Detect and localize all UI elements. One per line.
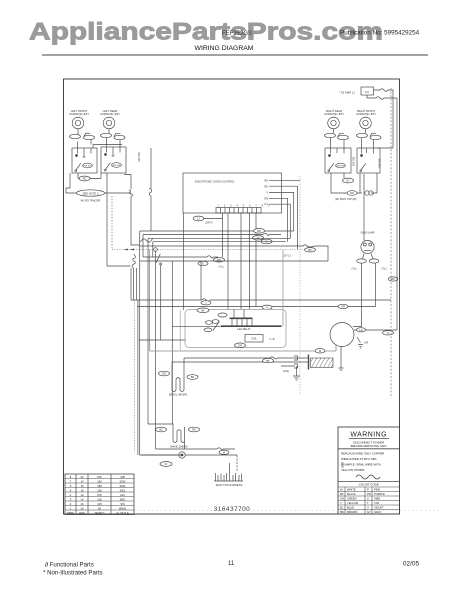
label W on drop	[160, 462, 172, 467]
wire: oven lamp right drop	[375, 263, 377, 307]
svg-text:WIRE: WIRE	[67, 511, 74, 515]
door switch plunger coil	[132, 254, 135, 268]
svg-text:(YL): (YL)	[351, 267, 356, 271]
svg-text:150: 150	[97, 488, 102, 492]
svg-text:GY: GY	[264, 203, 268, 206]
svg-text:YELLOW STRIPE.: YELLOW STRIPE.	[341, 468, 365, 472]
svg-text:BAKE 2850W: BAKE 2850W	[170, 445, 187, 449]
svg-text:RD: RD	[350, 192, 354, 195]
svg-text:7: 7	[70, 479, 72, 483]
svg-text:WARNING: WARNING	[350, 432, 387, 439]
svg-text:3321: 3321	[120, 488, 126, 492]
svg-text:BLUE: BLUE	[347, 506, 354, 510]
svg-text:(GY) 2: (GY) 2	[283, 254, 291, 258]
svg-text:SURFACE UNIT: SURFACE UNIT	[69, 112, 89, 116]
wire: x147 vertical to bake	[148, 238, 173, 427]
bus wire y261 to right with label	[140, 261, 328, 269]
svg-text:180: 180	[97, 484, 102, 488]
surface unit left front label	[69, 109, 89, 116]
relay coil box	[245, 335, 275, 343]
svg-text:L&E RELAY: L&E RELAY	[237, 328, 251, 331]
electronic oven control	[183, 173, 282, 213]
svg-text:3: 3	[70, 497, 72, 501]
svg-text:W: W	[165, 462, 168, 466]
terminal block left rear	[101, 129, 126, 140]
svg-text:BK: BK	[201, 309, 205, 313]
wire: L2 drop from EOC connector	[193, 213, 222, 257]
svg-text:A/B: A/B	[120, 475, 125, 479]
label GY below right switches	[331, 173, 354, 183]
svg-text:90: 90	[98, 506, 101, 510]
EOC connector strip	[216, 206, 272, 214]
ground at terminal block	[283, 366, 300, 380]
svg-text:BROWN: BROWN	[347, 510, 357, 514]
svg-text:BK: BK	[191, 375, 195, 379]
wire: x160.7 down	[160, 265, 162, 340]
svg-text:W: W	[340, 488, 343, 492]
svg-text:SIS: SIS	[120, 502, 125, 506]
svg-text:PR: PR	[367, 492, 371, 496]
wire: RF switch feeds	[362, 138, 374, 148]
warning box	[338, 427, 400, 514]
svg-text:FEF352GS: FEF352GS	[222, 31, 252, 37]
svg-text:PW: PW	[97, 493, 102, 497]
svg-text:GY: GY	[346, 179, 350, 183]
perforation dots	[64, 510, 441, 512]
wire: EOC pin2	[269, 186, 298, 249]
terminal block right front	[357, 129, 382, 140]
svg-text:AppliancePartsPros.com: AppliancePartsPros.com	[29, 19, 383, 46]
relay contact bar 2	[173, 326, 282, 331]
svg-text:AWG: AWG	[79, 511, 85, 515]
bus wire y257 with break RD	[143, 256, 225, 262]
wire: gray drop to relay box	[282, 250, 284, 327]
wire: vertical from LR switch down	[107, 173, 131, 266]
wire: light bottom to gray run	[335, 344, 337, 351]
surface unit right front label	[356, 109, 376, 116]
main top harness connector	[214, 463, 243, 487]
wire: fuse out bottom	[367, 95, 397, 99]
svg-text:6: 6	[70, 484, 72, 488]
wire: x137.9 down	[137, 300, 139, 455]
wire: LR switch feeds	[107, 138, 121, 147]
wire: EOC pin4	[269, 198, 288, 241]
svg-text:SURFACE UNIT: SURFACE UNIT	[356, 112, 376, 116]
bus wire y238.3 with label YL	[148, 238, 290, 244]
wire: x201 drop	[200, 261, 202, 300]
svg-text:WIRING DIAGRAM: WIRING DIAGRAM	[195, 45, 254, 52]
svg-text:8: 8	[70, 475, 72, 479]
svg-text:TEMP°C: TEMP°C	[94, 511, 105, 515]
svg-text:OR: OR	[238, 344, 242, 348]
wire: x142 vertical long	[140, 231, 181, 455]
svg-text:MAIN TOP HARNESS: MAIN TOP HARNESS	[216, 483, 243, 487]
wire: LF switch feeds	[78, 140, 123, 149]
bus wire y241.7	[153, 242, 286, 257]
svg-text:F--B: F--B	[270, 338, 275, 341]
wire break symbol on x131	[124, 175, 140, 246]
svg-text:316 SW: 316 SW	[137, 152, 141, 162]
svg-text:PURPLE: PURPLE	[374, 492, 385, 496]
svg-text:GN: GN	[340, 497, 344, 501]
svg-text:BK: BK	[308, 248, 312, 252]
label OR on relay box bottom	[235, 343, 246, 348]
svg-text:OR: OR	[341, 306, 345, 309]
svg-text:16: 16	[81, 502, 84, 506]
infinite switch left rear	[101, 147, 126, 173]
ground stub below light	[339, 347, 344, 371]
wire gauge table	[65, 474, 134, 515]
wire: broil to terminal block	[172, 357, 281, 363]
oven light assembly	[330, 323, 354, 347]
wire: broil leads	[172, 358, 184, 375]
svg-text:INF SW: INF SW	[337, 166, 346, 168]
svg-text:GREEN: GREEN	[347, 497, 357, 501]
bus wire y231 with label RD	[140, 229, 294, 234]
svg-text:316 SW: 316 SW	[378, 158, 382, 168]
surface unit left rear	[103, 117, 115, 129]
door switch contact	[156, 254, 160, 263]
svg-text:RD: RD	[264, 185, 268, 188]
svg-text:COIL: COIL	[251, 338, 257, 341]
svg-text:RD: RD	[192, 428, 196, 432]
svg-text:PW: PW	[97, 475, 102, 479]
svg-text:1: 1	[70, 506, 72, 510]
svg-text:PINK: PINK	[374, 488, 380, 492]
svg-text:316437700: 316437700	[214, 506, 251, 513]
surface unit right rear label	[324, 109, 344, 116]
bus wire y246 long with break BK	[140, 245, 328, 261]
svg-text:REPLACE WIRE ONLY COPPER: REPLACE WIRE ONLY COPPER	[341, 452, 384, 456]
bake element	[170, 427, 187, 449]
svg-text:2: 2	[70, 502, 72, 506]
diagram frame	[64, 79, 400, 514]
svg-text:FU: FU	[365, 90, 369, 94]
svg-text:Y: Y	[340, 501, 342, 505]
svg-text:14: 14	[81, 479, 84, 483]
svg-text:(YL): (YL)	[218, 265, 223, 269]
svg-text:(GN): (GN)	[283, 369, 289, 373]
svg-text:GY: GY	[367, 510, 371, 514]
harness dotted run y249.5	[112, 249, 304, 251]
svg-text:LD: LD	[359, 329, 362, 332]
lock relay assembly box	[185, 310, 286, 348]
relay contact bar 1	[218, 310, 253, 327]
svg-text:3341: 3341	[120, 484, 126, 488]
bus wire y234.5 with break	[143, 233, 281, 257]
svg-text:L2: L2	[197, 217, 200, 221]
junction node on harness run	[154, 248, 158, 252]
svg-text:BL: BL	[340, 506, 344, 510]
relay pilot contacts	[204, 320, 220, 332]
svg-text:BLACK: BLACK	[347, 492, 356, 496]
harness dashed drop x112	[111, 196, 113, 250]
svg-text:02/05: 02/05	[403, 561, 419, 568]
svg-text:RD: RD	[162, 372, 166, 376]
wire hop	[141, 239, 153, 243]
label BK on right riser	[388, 277, 398, 281]
svg-text:V: V	[367, 506, 369, 510]
svg-text:W/ RD TRACER: W/ RD TRACER	[81, 199, 101, 203]
svg-text:INF SW: INF SW	[113, 165, 122, 167]
svg-text:20: 20	[81, 506, 84, 510]
header rule	[42, 54, 428, 56]
harness dotted vertical x300	[299, 176, 301, 395]
wire: fuse out top	[374, 89, 394, 148]
svg-text:AMB: AMB	[374, 497, 380, 501]
svg-text:BEFORE SERVICING UNIT: BEFORE SERVICING UNIT	[351, 444, 387, 448]
wire: oven lamp feed	[363, 174, 365, 241]
wire: oven lamp left drop	[353, 263, 362, 327]
wire: y340 into relay box	[139, 339, 186, 341]
svg-text:3342: 3342	[120, 479, 126, 483]
svg-text:V: V	[266, 192, 268, 195]
terminal block left front	[70, 129, 95, 140]
svg-text:14: 14	[81, 497, 84, 501]
svg-text:RD: RD	[83, 177, 87, 181]
infinite switch left front	[72, 148, 97, 173]
svg-text:(YL): (YL)	[381, 267, 386, 271]
svg-text:18: 18	[81, 488, 84, 492]
wire: gray x180.2 drop	[179, 310, 181, 351]
svg-text:303 SW: 303 SW	[352, 156, 356, 166]
surface unit right rear	[328, 117, 340, 129]
svg-text:6043: 6043	[341, 461, 345, 468]
svg-text:11: 11	[228, 561, 235, 567]
wire: bake right lead to bus	[184, 441, 186, 449]
svg-text:* 20 AMP L1: * 20 AMP L1	[339, 91, 355, 95]
bake element labels	[156, 427, 200, 432]
wire: long horizontal y306.6	[137, 304, 376, 309]
infinite switch right front	[357, 148, 380, 173]
svg-text:BZ: BZ	[159, 428, 163, 432]
svg-text:SURFACE UNIT: SURFACE UNIT	[324, 112, 344, 116]
surface unit left front	[72, 117, 84, 129]
main top harness dashed border	[390, 88, 392, 398]
wire: x155.5 vertical	[155, 251, 157, 449]
svg-text:WIRE RATED AT 90°C MIN.: WIRE RATED AT 90°C MIN.	[341, 457, 377, 461]
svg-text:Publication No: 5995429254: Publication No: 5995429254	[340, 30, 420, 37]
svg-text:RD: RD	[217, 258, 221, 262]
wire: EOC connector drops to relay	[228, 213, 256, 310]
infinite switch right rear	[325, 148, 351, 173]
svg-text:SRML: SRML	[119, 506, 127, 510]
wire: plunger pair down	[134, 268, 137, 300]
broil element	[169, 375, 187, 397]
svg-text:SURFACE UNIT: SURFACE UNIT	[100, 112, 120, 116]
svg-text:SRG: SRG	[120, 497, 126, 501]
label RD on relay box top	[197, 308, 209, 313]
wire: gray chassis run y351	[150, 349, 337, 353]
svg-text:∂ Functional Parts: ∂ Functional Parts	[45, 562, 94, 569]
svg-text:UL STYLE: UL STYLE	[116, 511, 129, 515]
wire: EOC pin5	[269, 204, 290, 238]
terminal block right rear	[325, 129, 349, 140]
wire: light to right bus	[354, 99, 397, 335]
svg-text:COLOR CODE: COLOR CODE	[359, 483, 379, 487]
svg-text:A: A	[367, 497, 369, 501]
svg-text:A21: A21	[120, 493, 125, 497]
svg-text:* Non-Illustrated Parts: * Non-Illustrated Parts	[43, 570, 103, 577]
svg-text:10: 10	[81, 493, 84, 497]
wire: EOC left drop	[183, 213, 185, 310]
svg-text:BK: BK	[340, 492, 344, 496]
svg-text:150: 150	[97, 479, 102, 483]
fuse	[361, 87, 374, 95]
oven lamp label	[361, 232, 375, 235]
svg-text:GR: GR	[364, 341, 368, 345]
wire: x151 vertical from switch area with break	[149, 148, 152, 231]
svg-text:RD: RD	[257, 229, 261, 233]
svg-text:YELLOW: YELLOW	[347, 501, 359, 505]
svg-text:OVEN LAMP: OVEN LAMP	[361, 232, 375, 235]
svg-text:(W) MAIN TOP (W): (W) MAIN TOP (W)	[335, 198, 357, 201]
ground at oven light	[357, 337, 368, 348]
svg-text:BK: BK	[265, 180, 269, 183]
oven lamp	[361, 240, 374, 253]
svg-text:TAN: TAN	[374, 501, 379, 505]
svg-text:YL: YL	[201, 262, 205, 266]
svg-text:T: T	[367, 501, 369, 505]
svg-text:16: 16	[81, 484, 84, 488]
note label ellipse	[66, 173, 131, 203]
svg-text:OR: OR	[264, 197, 268, 200]
svg-text:105: 105	[97, 497, 102, 501]
wire: x149 gray vertical	[149, 250, 151, 352]
svg-text:20: 20	[81, 475, 84, 479]
broil element labels	[159, 371, 199, 379]
wire: x134.6 gray dotted down	[134, 300, 136, 452]
svg-text:VIOLET: VIOLET	[374, 506, 384, 510]
oven lamp terminals	[351, 254, 386, 271]
svg-text:INF SW: INF SW	[84, 166, 93, 168]
wire: bottom bus y455 with junction	[141, 452, 237, 472]
svg-text:105: 105	[97, 502, 102, 506]
svg-text:BK: BK	[391, 278, 395, 281]
wire: RR switch feeds	[331, 138, 345, 148]
arrow marks on harness run	[125, 249, 135, 251]
wire: long horizontal y300	[131, 268, 391, 305]
wire y193 with break RD right	[331, 173, 377, 195]
svg-text:ELECTRONIC OVEN CONTROL: ELECTRONIC OVEN CONTROL	[195, 180, 235, 184]
svg-text:P: P	[367, 488, 369, 492]
svg-text:4: 4	[70, 493, 72, 497]
svg-text:SEE NOTE 2: SEE NOTE 2	[83, 191, 99, 195]
svg-text:WHITE: WHITE	[347, 488, 356, 492]
wire: bottom bus y449 with break	[156, 448, 236, 455]
svg-text:5: 5	[70, 488, 72, 492]
wire: x172.3 drop	[171, 261, 173, 424]
EOC pin stubs right	[264, 180, 268, 207]
surface unit right front	[360, 117, 372, 129]
wire: EOC pin1 to bus	[269, 179, 300, 181]
wire: right bus drops	[377, 98, 397, 148]
wire label (RD) between switches	[78, 173, 101, 181]
svg-text:(GRY): (GRY)	[205, 220, 213, 224]
surface unit left rear label	[100, 109, 120, 116]
wire: EOC pin3	[269, 193, 294, 232]
svg-text:BROIL 3600W: BROIL 3600W	[169, 393, 187, 397]
svg-text:BK: BK	[266, 359, 270, 363]
power terminal block	[281, 355, 333, 370]
svg-text:EXAMPLE: SRML WIRE WITH: EXAMPLE: SRML WIRE WITH	[341, 463, 381, 467]
